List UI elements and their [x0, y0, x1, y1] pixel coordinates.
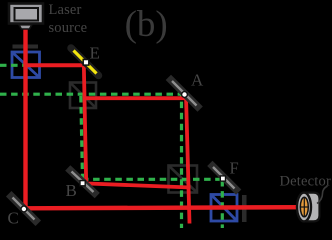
- attenuator bar above BS1: [13, 45, 39, 49]
- mirror B: [71, 171, 95, 194]
- mirror A: [171, 80, 198, 107]
- green dashed beam G2 (left edge to mirror A): [0, 93, 182, 96]
- laser source icon: [9, 4, 43, 30]
- green dashed beam G6 (mirror F down through BS4): [221, 180, 224, 228]
- svg-text:Detector: Detector: [280, 173, 332, 189]
- svg-text:B: B: [66, 181, 77, 200]
- green dashed beam G1 (into BS1 from left): [0, 64, 25, 67]
- red beam R5 (mirror A down through BS3): [186, 96, 190, 224]
- red beam R3 (mirror E down through BS2 to mirror B): [84, 64, 86, 184]
- beam splitter cube BS4 (blue, bottom-right): [211, 195, 237, 222]
- mirror F: [213, 166, 237, 190]
- green dashed beam G4 (BS2 down to mirror B): [81, 96, 83, 179]
- red beam R4 (BS2 to mirror A): [83, 96, 186, 100]
- svg-text:E: E: [90, 43, 100, 62]
- detector wire: [317, 186, 328, 204]
- mirror C: [12, 197, 36, 221]
- red beam R7 (mirror C along bottom to detector): [24, 207, 301, 208]
- mirror E (yellow): [71, 48, 99, 76]
- beam splitter cube BS1 (blue, top-left): [12, 52, 40, 78]
- svg-text:A: A: [191, 70, 204, 89]
- detector icon: [297, 186, 328, 221]
- svg-text:(b): (b): [125, 4, 168, 45]
- red beam R6 (mirror B to BS3): [85, 183, 191, 187]
- beam splitter cube BS3 (dark, bottom-right of loop): [169, 166, 198, 193]
- green dashed beam G3 (mirror A down to bottom): [180, 95, 183, 228]
- beam splitter cube BS2 (dark, middle): [70, 83, 96, 109]
- red beam R2 (BS1 to mirror E): [24, 63, 86, 67]
- red beam R1 (laser down to mirror C): [23, 28, 27, 209]
- svg-text:C: C: [8, 209, 19, 228]
- svg-text:F: F: [230, 159, 239, 178]
- filter bar right of BS4: [242, 195, 247, 222]
- svg-text:source: source: [49, 20, 88, 36]
- svg-text:Laser: Laser: [49, 2, 82, 18]
- green dashed beam G5 (mirror B to mirror F): [82, 178, 221, 181]
